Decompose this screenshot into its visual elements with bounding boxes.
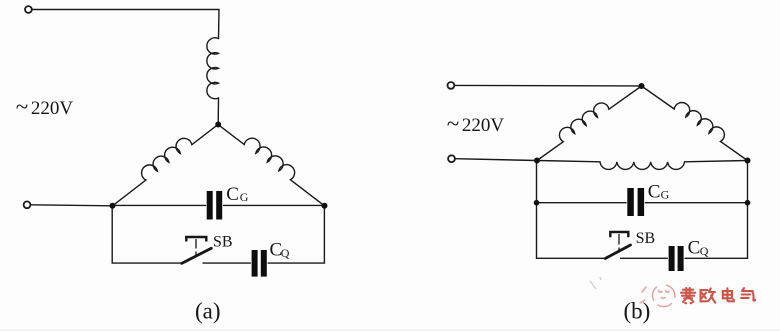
- svg-text:G: G: [240, 190, 249, 204]
- svg-text:C: C: [648, 182, 661, 203]
- svg-text:(a): (a): [195, 299, 221, 324]
- svg-text:SB: SB: [213, 233, 233, 250]
- svg-text:SB: SB: [636, 230, 656, 247]
- svg-text:~220V: ~220V: [16, 94, 74, 119]
- svg-text:~220V: ~220V: [447, 111, 505, 136]
- svg-text:G: G: [661, 188, 670, 202]
- svg-text:C: C: [226, 184, 239, 205]
- svg-text:(b): (b): [624, 299, 651, 324]
- svg-text:C: C: [688, 237, 701, 258]
- svg-text:Q: Q: [281, 246, 290, 260]
- svg-text:Q: Q: [700, 244, 709, 258]
